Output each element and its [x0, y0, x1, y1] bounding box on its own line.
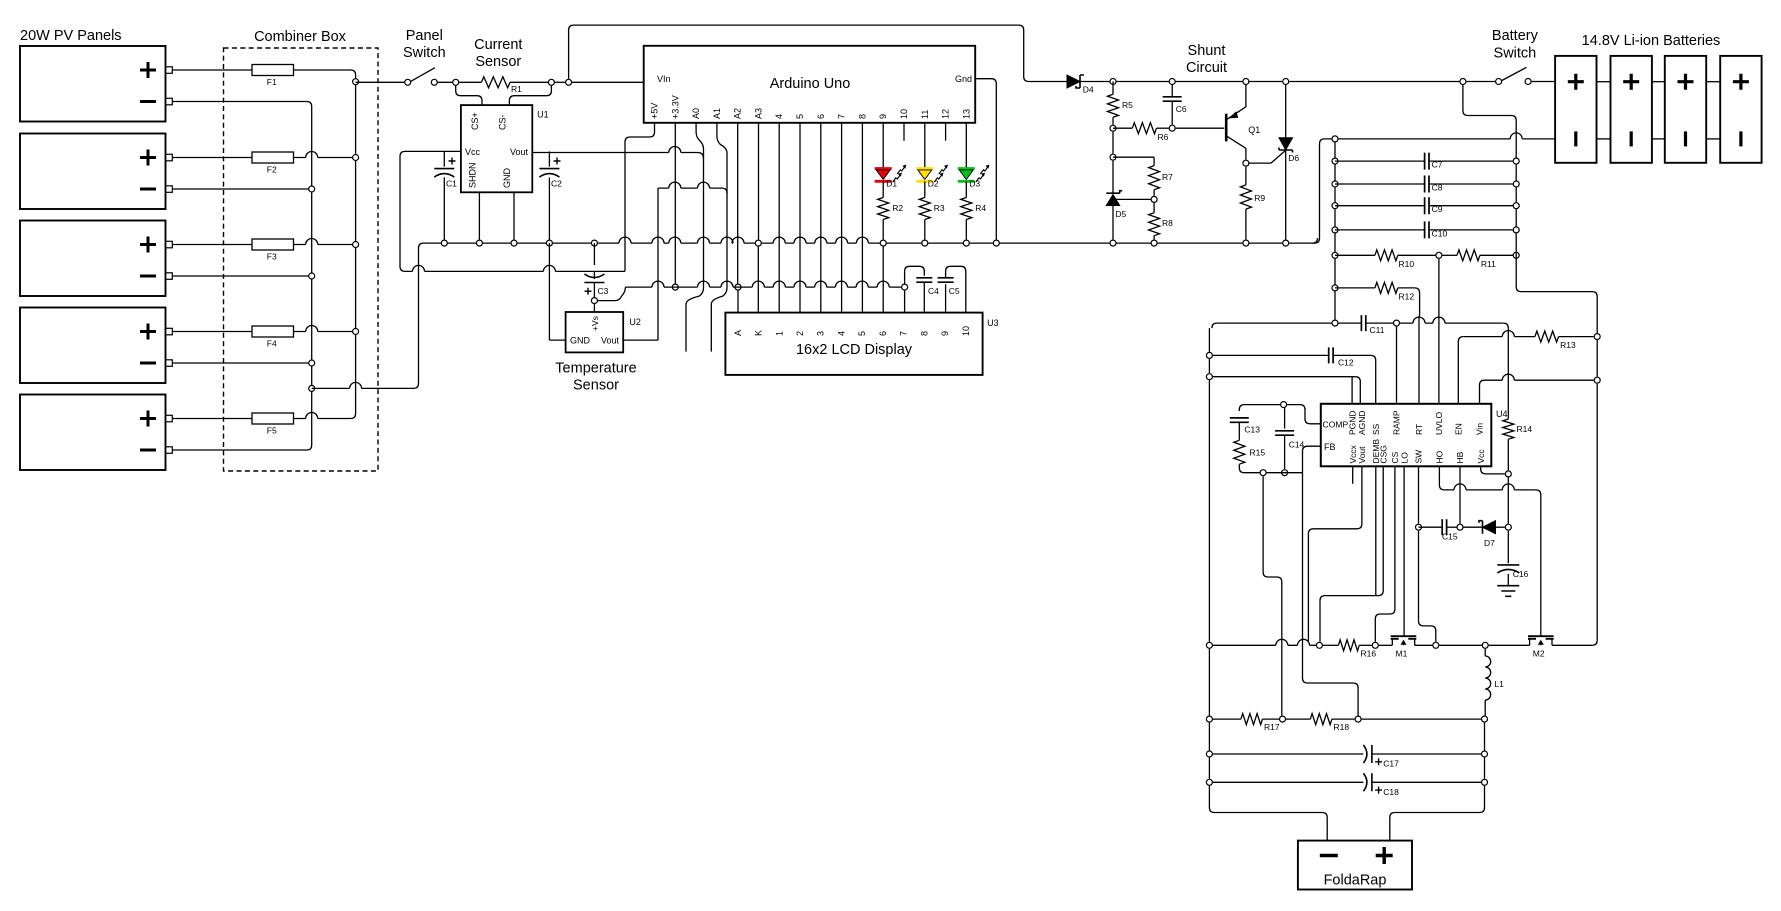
node ladder right C7: [1513, 158, 1519, 164]
solar panel PV1: [20, 46, 172, 122]
svg-text:U4: U4: [1496, 409, 1508, 419]
node AGND row left rail: [1206, 374, 1212, 380]
svg-text:Sensor: Sensor: [573, 378, 619, 394]
wire Arduino 4 to LCD 1: [778, 123, 780, 313]
AK bus: [625, 281, 901, 287]
wire to FoldaRap minus: [1209, 786, 1327, 841]
node D6 ground: [1283, 240, 1289, 246]
temperature sensor U2: [566, 312, 624, 352]
svg-text:A3: A3: [754, 108, 764, 119]
wire R5R6 node down: [1112, 132, 1114, 154]
wire M1 drain stub: [1415, 644, 1433, 646]
wire PV5+ to F5: [172, 418, 252, 420]
wire battery link+ 1: [1597, 81, 1611, 83]
wire F3 to plus bus: [294, 239, 356, 245]
wire FB link: [1303, 446, 1321, 473]
node plus bus F1: [353, 79, 359, 85]
capacitor C4: [916, 278, 939, 313]
wire +5V jog: [625, 123, 655, 142]
wire A0 column: [696, 123, 703, 149]
wire U1 Vout line: [532, 147, 697, 153]
node C11 RAMP: [1394, 320, 1400, 326]
svg-text:8: 8: [857, 114, 867, 119]
resistor R10: [1335, 250, 1435, 269]
wire Arduino 8 to LCD 5: [861, 123, 863, 313]
svg-text:U1: U1: [537, 109, 549, 119]
wire C11 row right: [1400, 317, 1503, 323]
svg-text:C15: C15: [1442, 532, 1458, 542]
resistor R12: [1335, 282, 1414, 301]
node A3 ground: [755, 240, 761, 246]
node ground bus x479: [476, 240, 482, 246]
ground symbol: [1497, 586, 1519, 597]
wire PV4+ to F4: [172, 331, 252, 333]
svg-text:6: 6: [816, 114, 826, 119]
svg-text:Panel: Panel: [406, 28, 443, 44]
node bus2 M1 drain: [1433, 642, 1439, 648]
svg-text:K: K: [754, 330, 764, 336]
svg-text:Current: Current: [474, 37, 522, 53]
wire panel switch to R1 node: [438, 81, 456, 83]
svg-text:M2: M2: [1533, 649, 1545, 659]
node C11 left bus: [1332, 320, 1338, 326]
wire Arduino 6 to LCD 3: [820, 123, 822, 313]
svg-text:14.8V Li-ion Batteries: 14.8V Li-ion Batteries: [1582, 33, 1721, 49]
svg-text:9: 9: [878, 114, 888, 119]
resistor R13: [1535, 331, 1594, 350]
wire PV3- to minus bus: [172, 275, 311, 277]
svg-text:Sensor: Sensor: [475, 54, 521, 70]
svg-text:Vin: Vin: [1475, 423, 1485, 435]
LED D3: [958, 123, 990, 198]
node ground bus x549: [546, 240, 552, 246]
wire DEMB CSG drop: [1375, 466, 1377, 595]
node ladder left C8: [1332, 181, 1338, 187]
wire AGND row: [1213, 376, 1355, 378]
svg-text:12: 12: [941, 109, 951, 119]
svg-text:Circuit: Circuit: [1186, 60, 1227, 76]
node R17 R18: [1280, 716, 1286, 722]
svg-text:16x2 LCD Display: 16x2 LCD Display: [796, 342, 913, 358]
node Vin tap: [566, 79, 572, 85]
capacitor C8: [1335, 176, 1516, 193]
svg-text:F4: F4: [267, 339, 277, 349]
svg-text:D7: D7: [1484, 538, 1495, 548]
svg-text:D6: D6: [1288, 153, 1299, 163]
svg-text:20W PV Panels: 20W PV Panels: [20, 28, 122, 44]
resistor R9: [1240, 167, 1265, 240]
svg-text:EN: EN: [1454, 423, 1464, 435]
wire F4 to plus bus: [294, 326, 356, 332]
node A2 LCD A: [735, 284, 741, 290]
node ladder right C8: [1513, 181, 1519, 187]
wire R15 drop: [1262, 476, 1264, 572]
capacitor C3: [584, 271, 608, 297]
svg-text:HB: HB: [1455, 451, 1465, 463]
wire node to R1: [459, 81, 481, 83]
fuse F2: [252, 152, 294, 175]
rail A lower: [1507, 477, 1509, 523]
wire U1 GND down: [513, 192, 515, 243]
wire A2 column: [737, 123, 739, 284]
svg-text:Q1: Q1: [1248, 125, 1260, 135]
capacitor C16: [1497, 531, 1528, 586]
svg-text:R12: R12: [1399, 292, 1415, 302]
svg-text:CS+: CS+: [470, 112, 480, 130]
svg-text:D1: D1: [886, 179, 897, 189]
capacitor C10: [1335, 221, 1516, 238]
vin rail: [1596, 340, 1598, 377]
node C18 left: [1206, 779, 1212, 785]
wire +5V drop: [624, 142, 626, 271]
wire D4 to shunt nodes: [1080, 81, 1463, 83]
wire A3 column: [758, 123, 760, 240]
svg-text:GND: GND: [570, 336, 591, 346]
wire battery link+ 3: [1706, 81, 1720, 83]
wire F5 to plus bus: [294, 413, 351, 419]
wire minus riser to ground bus: [419, 243, 424, 383]
fuse F3: [252, 239, 294, 262]
LED D2: [916, 123, 948, 198]
wire R6 to Q1 base: [1176, 127, 1225, 129]
node R4 ground: [963, 240, 969, 246]
solar panel PV5: [20, 395, 172, 471]
wire shunt top line: [1029, 81, 1067, 83]
battery switch: [1496, 79, 1502, 85]
wire Vcc link: [1481, 466, 1505, 474]
wire U2 GND: [549, 339, 565, 341]
node C13 C14 top: [1281, 402, 1287, 408]
wire Vccx stub: [1352, 466, 1354, 484]
node L1 bottom: [1482, 716, 1488, 722]
svg-text:A1: A1: [712, 108, 722, 119]
node minus bus PV2: [309, 186, 315, 192]
solar panel PV4: [20, 308, 172, 384]
node ladder left C7: [1332, 158, 1338, 164]
wire row 472: [1267, 472, 1303, 474]
svg-text:R9: R9: [1254, 193, 1265, 203]
diode D7: [1464, 521, 1505, 548]
line A +5V distribution: [405, 265, 625, 271]
svg-text:C9: C9: [1432, 204, 1443, 214]
wire HB drop: [1459, 466, 1461, 523]
svg-text:R14: R14: [1517, 424, 1533, 434]
wire battery link+ 2: [1652, 81, 1665, 83]
svg-text:CS-: CS-: [497, 114, 507, 130]
wire ladder right bus to Vin rail: [1516, 252, 1597, 333]
node ground bus x444: [441, 240, 447, 246]
svg-text:COMP: COMP: [1323, 419, 1349, 429]
svg-text:R16: R16: [1361, 649, 1377, 659]
resistor R14: [1503, 419, 1533, 470]
svg-text:+3.3V: +3.3V: [670, 95, 680, 119]
svg-text:F5: F5: [267, 426, 277, 436]
svg-text:Vout: Vout: [601, 336, 620, 346]
wire A1 column: [717, 123, 727, 153]
node Vin rail: [1594, 377, 1600, 383]
node R8 ground: [1151, 240, 1157, 246]
diode D4: [1067, 75, 1094, 95]
node R2 ground: [880, 240, 886, 246]
node R17 left rail: [1206, 716, 1212, 722]
capacitor C6: [1163, 85, 1187, 125]
wire PV2+ to F2: [172, 157, 252, 159]
power row left: [1213, 639, 1316, 645]
node ground bus x594: [591, 240, 597, 246]
node C12 left rail: [1206, 352, 1212, 358]
node R5 R6: [1110, 125, 1116, 131]
node minus bus PV3: [309, 273, 315, 279]
svg-text:Temperature: Temperature: [555, 361, 636, 377]
svg-text:C5: C5: [949, 286, 960, 296]
wire PV3+ to F3: [172, 244, 252, 246]
IC Arduino Uno: [644, 46, 976, 123]
svg-text:R7: R7: [1162, 172, 1173, 182]
wire LCD A stub: [737, 291, 739, 313]
wire L1 to M2: [1489, 644, 1530, 646]
svg-text:D2: D2: [928, 179, 939, 189]
svg-text:R2: R2: [892, 203, 903, 213]
svg-text:FoldaRap: FoldaRap: [1324, 873, 1387, 889]
svg-text:Switch: Switch: [1494, 46, 1537, 62]
wire PGND stub: [1351, 377, 1353, 404]
svg-text:R4: R4: [975, 203, 986, 213]
svg-text:CSG: CSG: [1378, 445, 1388, 463]
wire pin 10 stub: [903, 123, 905, 141]
node shunt A: [1110, 79, 1116, 85]
resistor R4: [961, 198, 987, 240]
svg-text:11: 11: [920, 110, 930, 119]
plus bus wire: [355, 75, 357, 414]
svg-text:F1: F1: [267, 77, 277, 87]
wire C3 top to ground bus: [593, 243, 595, 265]
svg-text:C18: C18: [1383, 787, 1399, 797]
svg-text:Battery: Battery: [1492, 28, 1539, 44]
capacitor C15: [1419, 519, 1458, 541]
node ladder right C9: [1513, 203, 1519, 209]
node plus bus F2: [353, 155, 359, 161]
node battery switch tap: [1460, 79, 1466, 85]
svg-text:10: 10: [899, 109, 909, 119]
fuse F4: [252, 326, 294, 349]
left rail lower: [1208, 649, 1210, 716]
node Gnd bus: [993, 240, 999, 246]
resistor R3: [919, 198, 945, 240]
wire D5 to R7R8 node: [1113, 198, 1151, 200]
wire M1 drain to L1: [1439, 644, 1481, 646]
svg-text:7: 7: [837, 114, 847, 119]
svg-text:R6: R6: [1158, 132, 1169, 142]
svg-text:VIn: VIn: [657, 74, 671, 84]
inductor L1: [1485, 649, 1504, 716]
svg-text:C10: C10: [1432, 228, 1448, 238]
node SW C15: [1416, 524, 1422, 530]
capacitor C7: [1335, 153, 1516, 170]
node R9 ground: [1243, 240, 1249, 246]
node C18 right: [1482, 779, 1488, 785]
wire PV4- to minus bus: [172, 362, 311, 364]
svg-text:SW: SW: [1414, 450, 1424, 464]
wire EN riser: [1458, 337, 1463, 404]
svg-text:5: 5: [857, 331, 867, 336]
wire SW to M1 drain: [1418, 531, 1420, 621]
wire Vout drop: [1361, 466, 1363, 524]
svg-text:F2: F2: [267, 165, 277, 175]
svg-text:Shunt: Shunt: [1188, 43, 1226, 59]
node D5 ground: [1110, 240, 1116, 246]
wire CS+ tap: [456, 86, 482, 105]
ladder left bus: [1334, 142, 1336, 319]
node R18 out: [1355, 716, 1361, 722]
wire CS- node to Vin node: [555, 81, 569, 83]
wire Vin node to Arduino Vin: [572, 81, 644, 83]
svg-text:HO: HO: [1435, 450, 1445, 463]
capacitor C2: [539, 151, 562, 243]
node bus2 L1: [1482, 642, 1488, 648]
svg-text:A0: A0: [691, 108, 701, 119]
panel switch: [405, 79, 411, 85]
wire battery minus line: [1339, 133, 1556, 139]
node shunt D: [1283, 79, 1289, 85]
resistor R1: [481, 77, 522, 94]
capacitor C1: [434, 151, 457, 243]
wire to battery switch: [1466, 81, 1495, 83]
node R6 C6: [1169, 125, 1175, 131]
svg-text:LO: LO: [1399, 452, 1409, 464]
node ground bus x514: [511, 240, 517, 246]
resistor R15: [1234, 422, 1266, 472]
wire COMP link: [1287, 405, 1321, 424]
svg-text:FB: FB: [1324, 442, 1336, 452]
svg-text:SHDN: SHDN: [467, 162, 477, 188]
wire HO link: [1439, 466, 1444, 490]
node C17 left: [1206, 751, 1212, 757]
svg-text:2: 2: [795, 331, 805, 336]
node HB C15: [1457, 524, 1463, 530]
wire U1 SHDN down: [478, 192, 480, 243]
svg-text:SS: SS: [1371, 423, 1381, 435]
svg-text:RAMP: RAMP: [1392, 410, 1402, 435]
node R14 Vcc: [1505, 471, 1511, 477]
wire Arduino 7 to LCD 4: [841, 123, 843, 313]
svg-text:A: A: [733, 330, 743, 336]
wire U1 Vcc left: [400, 151, 461, 156]
capacitor C9: [1335, 197, 1516, 214]
diode D5: [1106, 161, 1126, 240]
svg-text:C13: C13: [1244, 425, 1260, 435]
wire C3 node to AK jog: [598, 287, 626, 301]
wire tap to R7: [1113, 156, 1154, 158]
svg-text:13: 13: [961, 109, 971, 119]
svg-text:PGND: PGND: [1347, 410, 1357, 435]
wire switch to battery: [1532, 81, 1556, 83]
capacitor C11: [1339, 315, 1394, 335]
node CS+ tap: [453, 79, 459, 85]
node D7 out: [1505, 524, 1511, 530]
wire CS- tap: [509, 86, 551, 105]
wire SW drop: [1418, 466, 1420, 523]
wire collector to D6 line: [1249, 150, 1286, 163]
node minus ladder tap: [1332, 136, 1338, 142]
wire F1 to plus bus: [294, 70, 356, 75]
wire LCD 7 riser: [904, 291, 906, 313]
transistor Q1: [1226, 85, 1260, 160]
svg-text:R15: R15: [1250, 448, 1266, 458]
svg-text:C3: C3: [598, 286, 609, 296]
wire R18 to L1 bottom: [1362, 718, 1481, 720]
node R10 R11: [1436, 252, 1442, 258]
rail A upper: [1507, 328, 1509, 419]
node bus2 left rail: [1206, 642, 1212, 648]
svg-text:9: 9: [940, 331, 950, 336]
resistor R6: [1113, 123, 1169, 142]
node bus2 M1 source: [1372, 642, 1378, 648]
battery B1: [1555, 56, 1596, 163]
svg-text:M1: M1: [1396, 649, 1408, 659]
wire U2 Vout riser: [657, 193, 659, 340]
combiner box outline: [224, 48, 379, 471]
node C3 out: [591, 298, 597, 304]
wire C11 row left: [1212, 323, 1217, 328]
node R3 ground: [922, 240, 928, 246]
svg-text:7: 7: [899, 331, 909, 336]
svg-text:+5V: +5V: [650, 103, 660, 119]
mosfet M2: [1528, 636, 1554, 659]
svg-text:R17: R17: [1264, 722, 1280, 732]
LED D1: [875, 123, 907, 198]
capacitor C5: [938, 278, 960, 313]
svg-text:Vcc: Vcc: [465, 147, 481, 157]
svg-text:RT: RT: [1414, 424, 1424, 435]
svg-text:R8: R8: [1162, 218, 1173, 228]
wire R1 to CS- node: [510, 81, 551, 83]
wire Arduino Gnd: [975, 79, 996, 243]
wire Vin riser: [1480, 380, 1485, 404]
svg-text:Vout: Vout: [1357, 446, 1367, 464]
svg-text:4: 4: [774, 114, 784, 119]
node AK bus pin7: [902, 284, 908, 290]
node minus bus PV4: [309, 360, 315, 366]
capacitor C17: [1213, 745, 1481, 769]
IC 16x2 LCD Display U3: [725, 313, 982, 375]
node shunt C: [1243, 79, 1249, 85]
svg-text:GND: GND: [502, 168, 512, 189]
capacitor C14: [1275, 408, 1304, 469]
svg-text:F3: F3: [267, 252, 277, 262]
svg-text:C14: C14: [1289, 440, 1305, 450]
node ladder right C10: [1513, 227, 1519, 233]
svg-text:L1: L1: [1494, 679, 1504, 689]
resistor R18: [1286, 714, 1355, 732]
wire PV1+ to F1: [172, 69, 252, 71]
svg-text:U2: U2: [629, 317, 641, 327]
svg-text:Combiner Box: Combiner Box: [254, 29, 347, 45]
svg-text:+Vs: +Vs: [590, 316, 600, 331]
svg-text:R1: R1: [511, 84, 522, 94]
svg-text:1: 1: [774, 331, 784, 336]
wire PV1- to minus bus: [172, 102, 311, 107]
svg-text:4: 4: [836, 331, 846, 336]
wire RAMP drop: [1396, 327, 1398, 404]
wire M2 to rail: [1552, 644, 1592, 646]
node R13 rail: [1594, 334, 1600, 340]
svg-text:Arduino Uno: Arduino Uno: [770, 76, 851, 92]
wire C5 hook to LCD 10: [946, 266, 966, 312]
battery B4: [1720, 56, 1761, 163]
wire U2Vout to A1 link: [657, 188, 659, 193]
wire U2 Vs stub: [593, 304, 595, 312]
resistor R5: [1108, 82, 1134, 125]
